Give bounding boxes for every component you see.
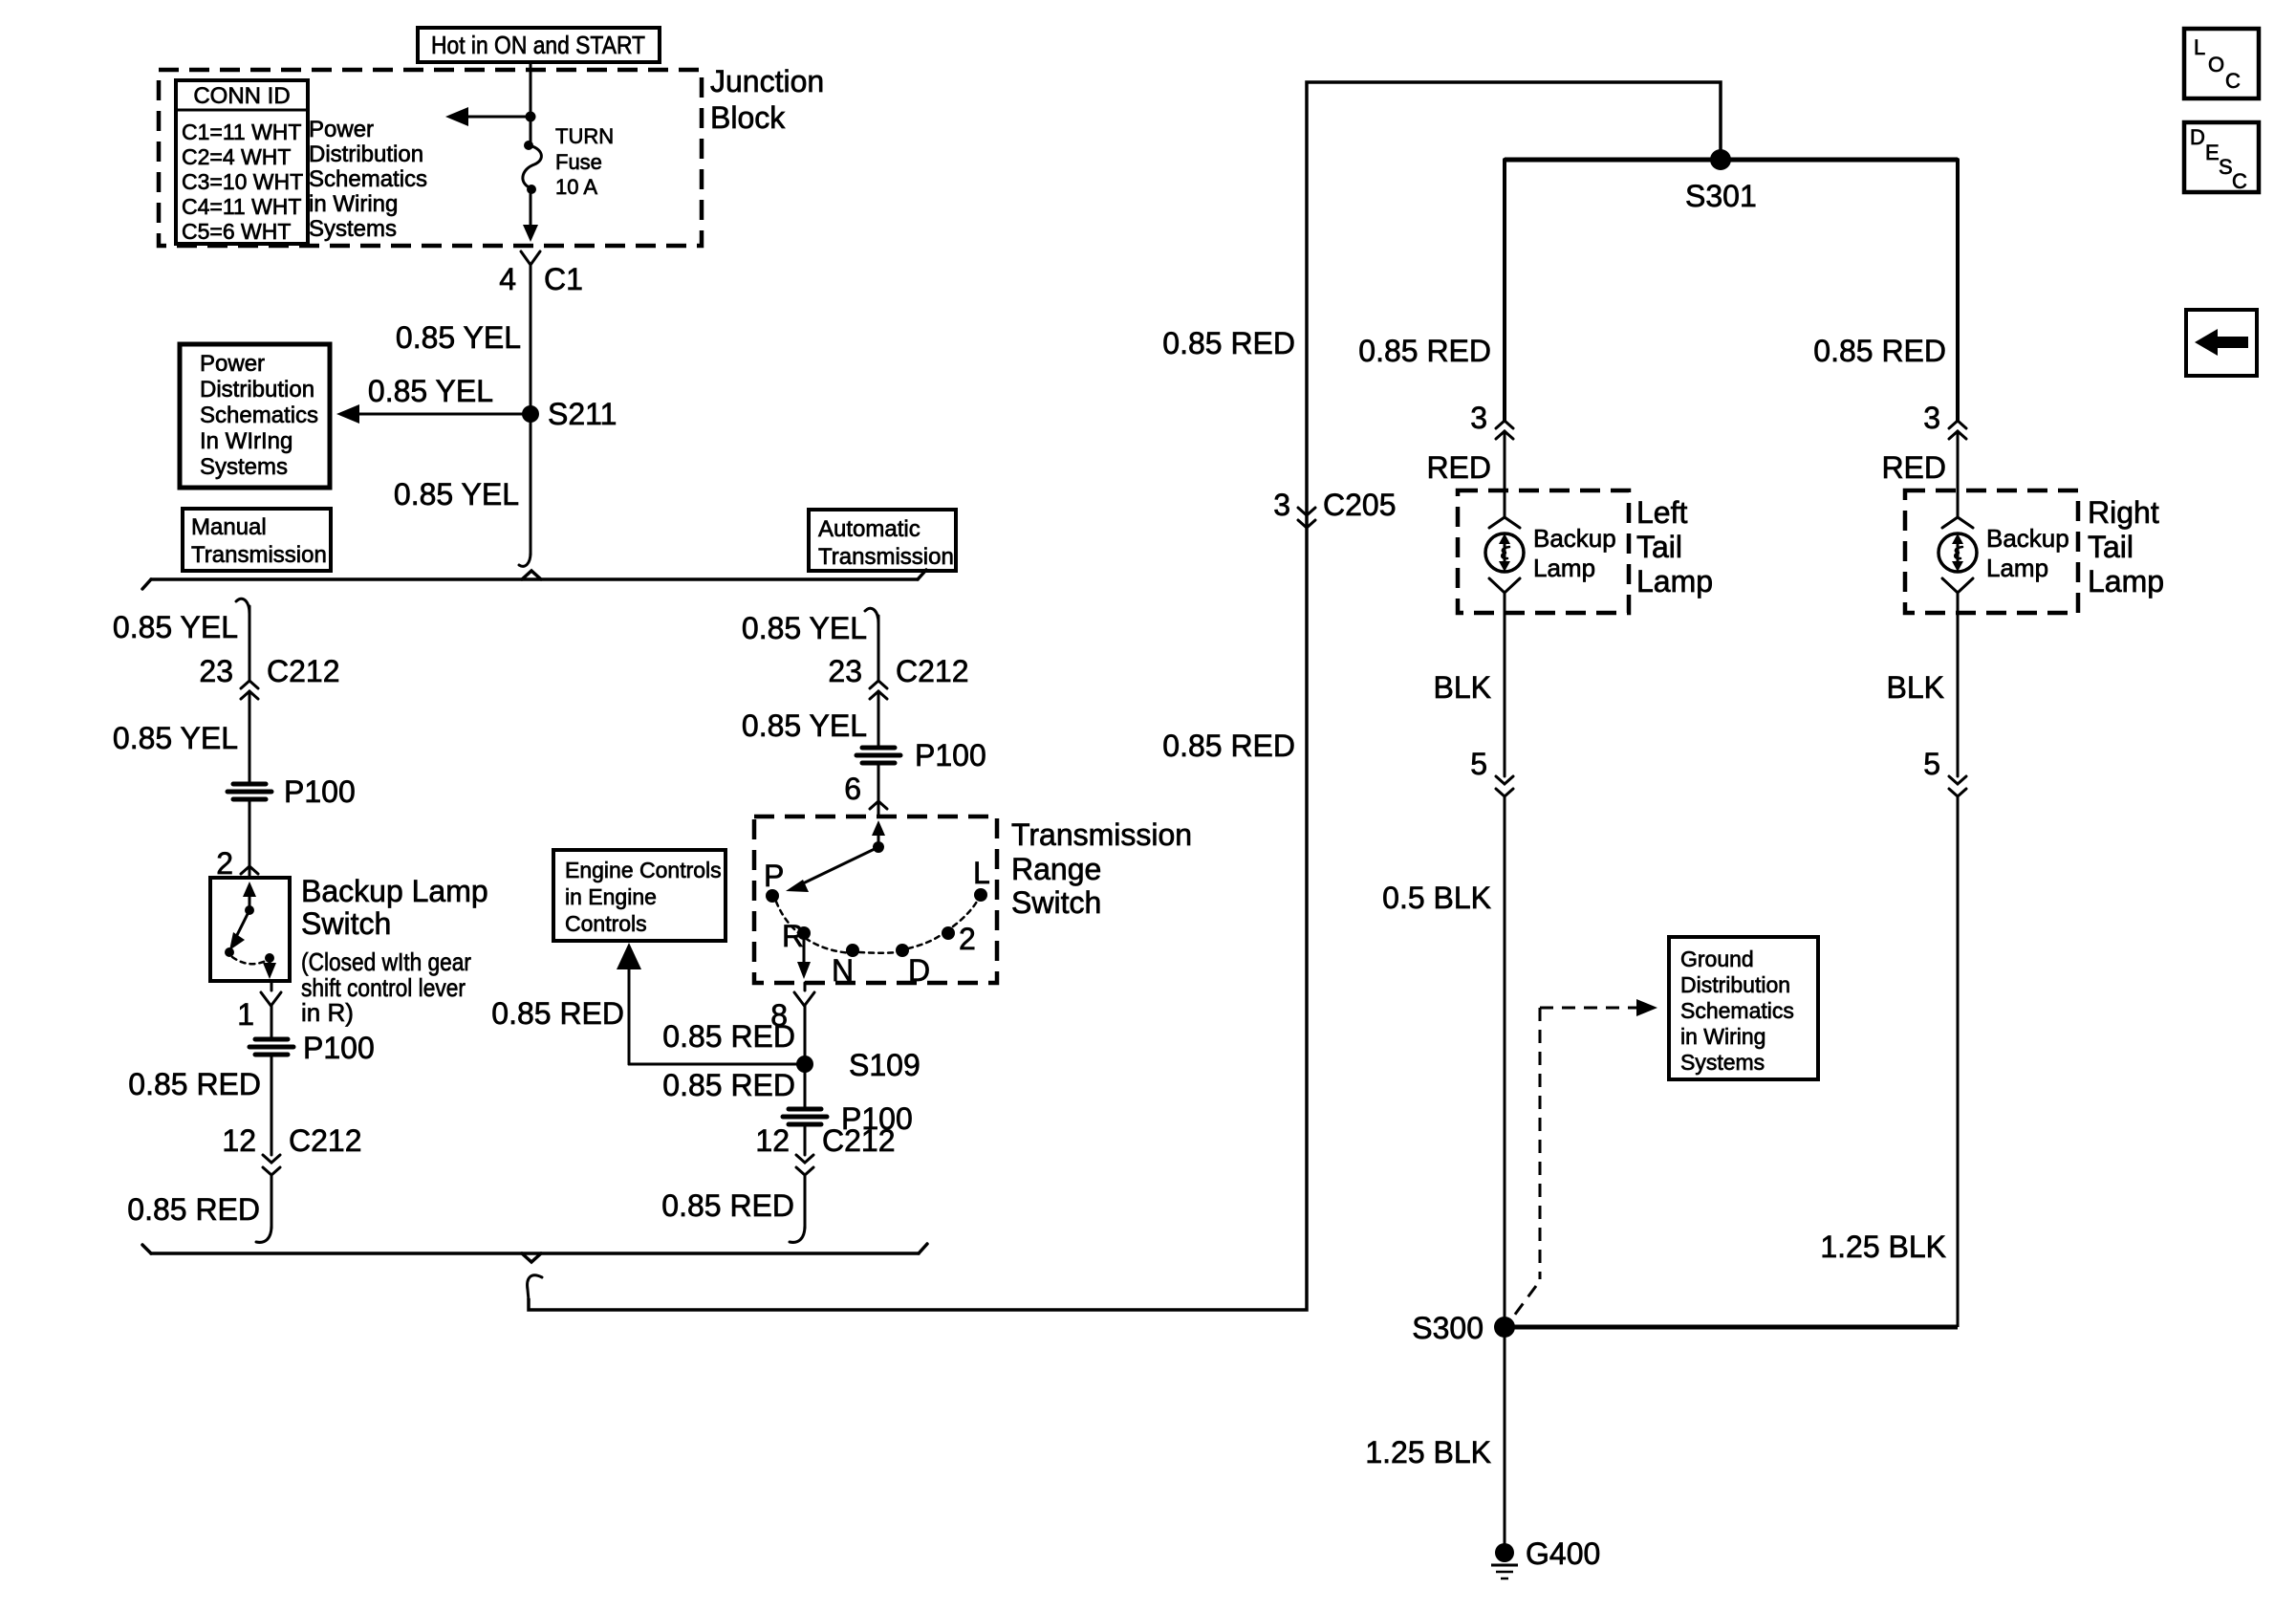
svg-text:1: 1	[237, 997, 254, 1032]
wire: P100 to C212 (middle)	[804, 1126, 807, 1155]
svg-text:Fuse: Fuse	[555, 150, 602, 174]
svg-text:CONN ID: CONN ID	[193, 83, 290, 109]
svg-text:Schematics: Schematics	[1680, 998, 1794, 1023]
svg-text:Lamp: Lamp	[1636, 564, 1713, 599]
svg-text:0.85 RED: 0.85 RED	[127, 1192, 260, 1227]
svg-text:O: O	[2208, 53, 2224, 76]
wire: pin1 to P100 (left)	[271, 1006, 273, 1038]
svg-text:0.85 RED: 0.85 RED	[1162, 729, 1295, 763]
svg-text:Schematics: Schematics	[309, 166, 427, 192]
connector pin 1 of backup lamp switch	[237, 981, 281, 1032]
label: Transmission Range Switch	[1011, 817, 1192, 920]
Automatic Transmission box	[809, 510, 956, 571]
svg-text:C212: C212	[267, 654, 340, 688]
svg-text:0.85 YEL: 0.85 YEL	[368, 374, 493, 408]
svg-text:Hot in ON and START: Hot in ON and START	[431, 31, 645, 59]
svg-text:3: 3	[1273, 488, 1290, 522]
arrow box (back navigation)	[2186, 310, 2257, 376]
svg-text:C1: C1	[544, 262, 583, 296]
svg-text:S109: S109	[849, 1048, 921, 1082]
svg-text:0.85 RED: 0.85 RED	[662, 1019, 795, 1054]
svg-text:P100: P100	[303, 1031, 375, 1065]
power label box: Hot in ON and START	[418, 28, 660, 62]
svg-text:P100: P100	[915, 738, 986, 773]
svg-text:C3=10 WHT: C3=10 WHT	[182, 169, 303, 194]
connector C212 pin 23 (left)	[199, 654, 339, 699]
wire: 0.85 YEL C212 to P100 (middle)	[877, 691, 880, 747]
svg-text:1.25 BLK: 1.25 BLK	[1820, 1230, 1946, 1264]
connector pin 6 of transmission range switch	[844, 772, 887, 816]
svg-text:0.5 BLK: 0.5 BLK	[1382, 881, 1491, 915]
arrow: S211 to power distribution box	[336, 404, 531, 424]
svg-text:0.85 YEL: 0.85 YEL	[742, 611, 867, 645]
bus bracket (top)	[142, 570, 926, 589]
wire: RED into right tail lamp	[1957, 431, 1960, 516]
splice S211	[522, 397, 617, 431]
wire: ground bus S300 to right riser	[1505, 1325, 1958, 1330]
svg-text:0.85 RED: 0.85 RED	[1162, 326, 1295, 360]
svg-text:Right: Right	[2088, 495, 2159, 530]
svg-text:Tail: Tail	[1636, 530, 1682, 564]
svg-text:0.85 YEL: 0.85 YEL	[113, 610, 238, 644]
connector pin 3 (right lamp)	[1923, 401, 1966, 439]
svg-text:in Wiring: in Wiring	[1680, 1024, 1765, 1049]
backup lamp (left)	[1485, 517, 1616, 593]
svg-text:Systems: Systems	[1680, 1050, 1765, 1075]
wire: S109 branch to engine controls arrow	[629, 1063, 805, 1066]
svg-text:Power: Power	[200, 351, 265, 377]
svg-text:Switch: Switch	[301, 906, 391, 941]
svg-text:Tail: Tail	[2088, 530, 2134, 564]
wire: 1.25 BLK right lamp down to S300 bus	[1957, 796, 1960, 1327]
svg-text:Transmission: Transmission	[191, 542, 327, 568]
svg-text:P100: P100	[284, 774, 356, 809]
svg-text:Junction: Junction	[710, 64, 824, 98]
power distribution box (left)	[180, 344, 330, 488]
svg-text:0.85 RED: 0.85 RED	[1358, 334, 1491, 368]
wire: 0.85 RED right lamp riser	[1956, 160, 1960, 421]
wire: 0.85 YEL from C1 through S211 down to bracket	[519, 265, 531, 566]
engine controls box	[553, 850, 726, 941]
wire: 0.85 RED pin 8 to S109	[804, 1006, 807, 1064]
svg-text:5: 5	[1923, 747, 1940, 781]
svg-text:L: L	[2194, 35, 2205, 59]
svg-text:3: 3	[1923, 401, 1940, 435]
wire: 0.85 RED P100 to C212 (left)	[271, 1056, 273, 1155]
svg-text:C: C	[2225, 69, 2241, 93]
svg-text:D: D	[2190, 125, 2205, 149]
svg-text:Left: Left	[1636, 495, 1687, 530]
svg-text:in Engine: in Engine	[565, 884, 657, 909]
dashed pointer: S300 to ground distribution	[1514, 999, 1657, 1316]
wire: feed from Hot box down to fuse	[530, 62, 532, 144]
svg-text:2: 2	[959, 922, 976, 956]
svg-text:0.85 RED: 0.85 RED	[128, 1067, 261, 1101]
svg-text:23: 23	[199, 654, 233, 688]
svg-text:Power: Power	[309, 117, 374, 142]
svg-text:Engine Controls: Engine Controls	[565, 858, 722, 882]
svg-text:12: 12	[222, 1123, 256, 1158]
splice S300	[1412, 1311, 1515, 1345]
backup lamp switch box	[210, 878, 290, 981]
svg-text:Block: Block	[710, 100, 786, 135]
ground G400	[1491, 1536, 1600, 1578]
svg-text:Manual: Manual	[191, 514, 267, 540]
svg-text:Range: Range	[1011, 852, 1101, 886]
svg-text:L: L	[973, 856, 990, 890]
svg-text:0.85 YEL: 0.85 YEL	[396, 320, 521, 355]
right tail lamp dashed box	[1905, 490, 2078, 613]
svg-text:C212: C212	[822, 1123, 896, 1158]
svg-text:Distribution: Distribution	[200, 377, 314, 403]
svg-text:0.85 RED: 0.85 RED	[1813, 334, 1946, 368]
svg-text:C205: C205	[1323, 488, 1397, 522]
svg-text:5: 5	[1470, 747, 1487, 781]
svg-text:Ground: Ground	[1680, 947, 1754, 971]
junction dot in junction block	[526, 112, 536, 122]
svg-text:S: S	[2219, 155, 2233, 179]
svg-text:S300: S300	[1412, 1311, 1484, 1345]
svg-text:Distribution: Distribution	[1680, 972, 1790, 997]
svg-text:E: E	[2205, 141, 2220, 164]
svg-text:Automatic: Automatic	[818, 516, 921, 542]
note: Power Distribution Schematics in Wiring Systems (junction block)	[309, 117, 427, 242]
svg-text:Lamp: Lamp	[1986, 554, 2048, 582]
connector C212 pin 23 (middle)	[828, 654, 968, 699]
connector pin 3 (left lamp)	[1470, 401, 1513, 439]
connector pin 8 below TRS	[770, 983, 814, 1033]
junction block dashed box	[159, 70, 702, 246]
arrow: junction block feed to power distribution (left)	[445, 107, 531, 126]
svg-text:RED: RED	[1426, 450, 1491, 485]
svg-text:C1=11 WHT: C1=11 WHT	[182, 120, 301, 144]
connector pin 5 (left)	[1470, 747, 1513, 796]
connector C205 pin 3	[1273, 488, 1396, 528]
grommet P100 (middle)	[856, 738, 986, 773]
svg-text:BLK: BLK	[1434, 670, 1491, 705]
arrow: fuse output down to C1	[523, 189, 538, 242]
svg-text:10 A: 10 A	[555, 175, 597, 199]
svg-text:Transmission: Transmission	[1011, 817, 1192, 852]
svg-text:Systems: Systems	[309, 216, 397, 242]
svg-text:0.85 RED: 0.85 RED	[491, 996, 624, 1031]
svg-text:S301: S301	[1685, 179, 1757, 213]
label: Right Tail Lamp	[2088, 495, 2164, 599]
arrow: to engine controls	[617, 943, 641, 1064]
fuse: TURN Fuse 10 A	[523, 141, 542, 194]
transmission range switch internals	[764, 820, 990, 988]
svg-text:Backup Lamp: Backup Lamp	[301, 874, 488, 908]
svg-text:0.85 RED: 0.85 RED	[661, 1188, 794, 1223]
wire: 0.85 YEL C212 to P100 (left)	[249, 691, 251, 782]
svg-text:(Closed wIth gear: (Closed wIth gear	[301, 947, 471, 976]
svg-text:Schematics: Schematics	[200, 403, 318, 428]
bus bracket (bottom)	[142, 1244, 927, 1262]
svg-text:0.85 YEL: 0.85 YEL	[394, 477, 519, 512]
svg-text:Lamp: Lamp	[1533, 554, 1595, 582]
svg-text:P: P	[764, 859, 784, 893]
connector pin 2 of backup lamp switch	[216, 846, 258, 881]
wire: 0.85 YEL down to C212 (middle)	[877, 616, 880, 681]
wire: transfer curl below bracket	[528, 1275, 542, 1300]
svg-text:3: 3	[1470, 401, 1487, 435]
svg-text:BLK: BLK	[1887, 670, 1944, 705]
svg-text:12: 12	[755, 1123, 790, 1158]
backup lamp switch internals	[225, 882, 276, 979]
svg-text:R: R	[782, 919, 804, 953]
label: Left Tail Lamp	[1636, 495, 1713, 599]
svg-text:6: 6	[844, 772, 861, 806]
svg-text:2: 2	[216, 846, 233, 881]
svg-text:D: D	[908, 953, 930, 988]
wire: P100 to backup lamp switch pin 2	[249, 801, 251, 866]
wire: 0.85 RED down to bracket (middle)	[790, 1175, 805, 1242]
connector C1 pin 4	[499, 251, 583, 296]
svg-text:4: 4	[499, 262, 516, 296]
svg-text:Backup: Backup	[1533, 524, 1616, 553]
wire: lamp feed bus at S301	[1505, 158, 1958, 163]
wire: P100 to TRS pin 6	[877, 765, 880, 801]
svg-text:0.85 RED: 0.85 RED	[662, 1068, 795, 1102]
svg-text:Lamp: Lamp	[2088, 564, 2164, 599]
wire: 1.25 BLK S300 to G400	[1504, 1327, 1506, 1545]
svg-text:C5=6 WHT: C5=6 WHT	[182, 219, 291, 244]
svg-text:TURN: TURN	[555, 124, 614, 148]
Manual Transmission box	[183, 509, 331, 571]
svg-text:C2=4 WHT: C2=4 WHT	[182, 144, 291, 169]
left tail lamp dashed box	[1458, 490, 1629, 613]
svg-text:Systems: Systems	[200, 454, 288, 480]
label: TURN Fuse 10 A	[555, 124, 614, 199]
splice S301	[1685, 149, 1757, 213]
grommet P100 (left upper)	[227, 774, 356, 809]
svg-text:in R): in R)	[301, 998, 354, 1027]
svg-text:23: 23	[828, 654, 862, 688]
svg-text:Distribution: Distribution	[309, 142, 423, 167]
svg-text:in Wiring: in Wiring	[309, 191, 398, 217]
svg-text:RED: RED	[1881, 450, 1946, 485]
svg-text:C: C	[2232, 169, 2247, 193]
svg-text:Controls: Controls	[565, 911, 647, 936]
ground distribution box	[1669, 937, 1818, 1079]
wire: RED into left tail lamp	[1504, 431, 1506, 516]
CONN ID table	[176, 80, 308, 244]
connector C212 pin 12 (left)	[222, 1123, 361, 1175]
wire: BLK left lamp to connector 5	[1504, 593, 1506, 776]
svg-text:C212: C212	[289, 1123, 362, 1158]
grommet P100 (left lower)	[249, 1031, 375, 1065]
wire: 0.85 RED down to bracket (left)	[256, 1175, 271, 1242]
connector pin 5 (right)	[1923, 747, 1966, 796]
svg-text:Backup: Backup	[1986, 524, 2069, 553]
svg-text:0.85 YEL: 0.85 YEL	[742, 708, 867, 743]
svg-text:G400: G400	[1526, 1536, 1600, 1571]
svg-text:C212: C212	[896, 654, 969, 688]
svg-text:Switch: Switch	[1011, 885, 1101, 920]
junction block name label	[710, 64, 824, 135]
svg-text:S211: S211	[548, 397, 617, 431]
connector C212 pin 12 (middle)	[755, 1123, 895, 1175]
svg-text:In WIrIng: In WIrIng	[200, 428, 292, 454]
svg-text:N: N	[832, 953, 854, 988]
grommet P100 (middle lower)	[783, 1101, 913, 1136]
wire: 0.5 BLK down to S300	[1504, 796, 1506, 1327]
svg-text:Transmission: Transmission	[818, 544, 954, 570]
wire: middle branch hook from bracket	[865, 608, 878, 623]
label: Backup Lamp Switch	[301, 874, 488, 1027]
DESC box	[2184, 122, 2259, 193]
backup lamp (right)	[1939, 517, 2069, 593]
svg-text:1.25 BLK: 1.25 BLK	[1365, 1435, 1491, 1469]
wire: left branch 0.85 YEL down to C212	[249, 606, 251, 681]
wire: 0.85 RED S109 to P100 (middle)	[804, 1064, 807, 1109]
wire: 0.85 RED trunk to right section	[529, 82, 1721, 1310]
wire: left branch hook from bracket	[236, 599, 249, 614]
splice S109	[796, 1048, 921, 1082]
svg-text:0.85 YEL: 0.85 YEL	[113, 721, 238, 755]
wire: 0.85 RED left lamp riser	[1503, 160, 1506, 421]
svg-text:C4=11 WHT: C4=11 WHT	[182, 194, 301, 219]
wire: BLK right lamp to connector 5	[1957, 593, 1960, 776]
LOC box	[2184, 29, 2259, 98]
transmission range switch dashed box	[754, 816, 997, 983]
